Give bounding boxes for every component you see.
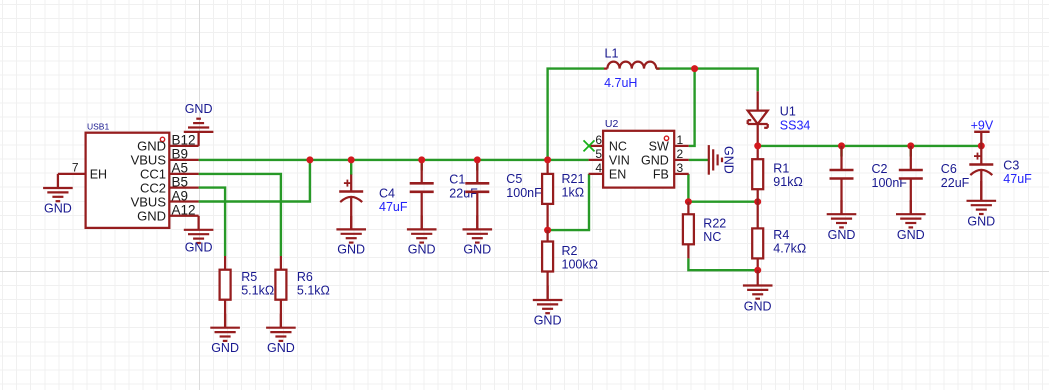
no-connect flag X on U2 pin 6 bbox=[584, 140, 595, 151]
junction VBUS rail at C1 bbox=[418, 156, 425, 163]
svg-text:A9: A9 bbox=[172, 188, 189, 203]
svg-text:4: 4 bbox=[595, 161, 602, 175]
wire net VBUS main rail bbox=[199, 159, 548, 161]
resistor R1 (91kΩ) FB divider top bbox=[752, 146, 803, 202]
pin B9 (VBUS) of USB1 bbox=[169, 159, 198, 161]
svg-text:GND: GND bbox=[267, 341, 295, 355]
connector USB1 (EH receptacle) bbox=[58, 122, 199, 228]
svg-text:GND: GND bbox=[211, 341, 239, 355]
wire net CC2 to R5 bbox=[199, 188, 226, 256]
svg-text:GND: GND bbox=[534, 313, 562, 327]
junction output rail at C2 bbox=[838, 142, 845, 149]
wire net EN: divider tap to U2 pin4 bbox=[548, 174, 589, 230]
junction FB node left bbox=[685, 198, 692, 205]
pin 6 (NC) of U2 bbox=[589, 145, 604, 147]
pin 4 (EN) of U2 bbox=[589, 173, 604, 175]
svg-text:47uF: 47uF bbox=[1003, 172, 1032, 186]
svg-text:2: 2 bbox=[677, 147, 684, 161]
svg-text:NC: NC bbox=[703, 230, 721, 244]
ground GND below C5 bbox=[463, 215, 493, 256]
ground GND below C4 bbox=[336, 216, 366, 257]
junction output rail at C6 bbox=[907, 142, 914, 149]
ground GND at USB pin 7 bbox=[43, 174, 73, 215]
svg-text:100nF: 100nF bbox=[506, 186, 542, 200]
junction VBUS rail at R21/L1 riser bbox=[544, 156, 551, 163]
junction VBUS rail at C4 bbox=[348, 156, 355, 163]
plus sign of C4 bbox=[344, 182, 351, 184]
svg-text:GND: GND bbox=[185, 241, 213, 255]
ground GND below C1 bbox=[407, 215, 437, 256]
svg-text:B12: B12 bbox=[172, 133, 196, 148]
pin A5 (CC1) of USB1 bbox=[169, 173, 198, 175]
pin B12 (GND) of USB1 bbox=[169, 145, 198, 147]
junction EN divider tap node bbox=[544, 227, 551, 234]
op-amp / regulator IC U2 (boost converter) bbox=[589, 118, 689, 187]
polarized capacitor C3 (47uF) output bulk cap bbox=[969, 146, 1032, 201]
schottky diode U1 (SS34) bbox=[748, 91, 811, 146]
svg-text:GND: GND bbox=[722, 146, 736, 174]
svg-text:VBUS: VBUS bbox=[131, 194, 167, 209]
svg-text:GND: GND bbox=[337, 243, 365, 257]
svg-text:CC2: CC2 bbox=[140, 180, 166, 195]
capacitor C1 (22uF) input cap bbox=[410, 161, 478, 230]
svg-text:FB: FB bbox=[653, 168, 669, 182]
pin 5 (VIN) of U2 bbox=[589, 159, 604, 161]
svg-text:VIN: VIN bbox=[609, 154, 630, 168]
wire net FB horizontal bbox=[688, 200, 757, 202]
resistor R6 (5.1kΩ) CC1 pulldown bbox=[275, 256, 329, 328]
svg-text:R6: R6 bbox=[297, 270, 313, 284]
svg-text:5.1kΩ: 5.1kΩ bbox=[297, 284, 330, 298]
ground GND below C2 bbox=[827, 200, 857, 242]
svg-text:3: 3 bbox=[677, 161, 684, 175]
inductor L1 (4.7uH) bbox=[604, 47, 660, 91]
pin 2 (GND) of U2 bbox=[674, 159, 689, 161]
svg-text:GND: GND bbox=[828, 228, 856, 242]
ground GND below R4 bbox=[743, 270, 773, 313]
ground GND below R5 bbox=[210, 314, 240, 355]
wire net VBUS to U2 VIN bbox=[548, 159, 589, 161]
wire U2 GND pin to ground bbox=[689, 159, 708, 161]
plus sign of C3 bbox=[974, 155, 981, 157]
capacitor C5 (100nF) input cap bbox=[465, 161, 542, 230]
svg-text:GND: GND bbox=[137, 139, 166, 154]
wire net SW: L1 right to diode anode bbox=[656, 69, 758, 92]
svg-text:GND: GND bbox=[641, 154, 669, 168]
wire C6 top stem wire bbox=[910, 146, 912, 157]
capacitor C2 (100nF) output cap bbox=[830, 146, 908, 214]
svg-text:SW: SW bbox=[649, 140, 669, 154]
pin 1 indicator dot of U2 bbox=[664, 136, 668, 140]
wire C5 top stem wire bbox=[476, 160, 478, 171]
pin 1 (SW) of U2 bbox=[674, 145, 689, 147]
pin 7 EH (left) bbox=[58, 173, 86, 175]
ground GND below R6 bbox=[266, 314, 296, 355]
capacitor C6 (22uF) output cap bbox=[899, 146, 970, 214]
wire net FB: U2 pin3 down bbox=[687, 174, 689, 202]
svg-text:47uF: 47uF bbox=[379, 200, 408, 214]
svg-text:22uF: 22uF bbox=[941, 176, 970, 190]
svg-text:R1: R1 bbox=[773, 162, 789, 176]
junction diode cathode / R1 node bbox=[754, 142, 761, 149]
svg-text:NC: NC bbox=[609, 140, 627, 154]
svg-text:C1: C1 bbox=[449, 173, 465, 187]
pin A12 (GND) of USB1 bbox=[169, 215, 198, 217]
svg-text:100kΩ: 100kΩ bbox=[562, 257, 598, 271]
svg-text:6: 6 bbox=[595, 133, 602, 147]
svg-text:91kΩ: 91kΩ bbox=[773, 175, 803, 189]
svg-text:C6: C6 bbox=[941, 162, 957, 176]
svg-text:GND: GND bbox=[408, 243, 436, 257]
junction output rail at +9V / C3 bbox=[978, 142, 985, 149]
resistor R5 (5.1kΩ) CC2 pulldown bbox=[220, 256, 275, 328]
wire net SW: U2 pin1 up to L1 node bbox=[689, 69, 695, 146]
pin 3 (FB) of U2 bbox=[674, 173, 689, 175]
svg-text:GND: GND bbox=[44, 201, 72, 215]
resistor R21 (1kΩ) EN divider top bbox=[542, 160, 584, 230]
wire R22 bottom to R4/GND node bbox=[688, 258, 757, 270]
svg-text:4.7uH: 4.7uH bbox=[604, 76, 637, 90]
svg-text:B5: B5 bbox=[172, 174, 189, 189]
ground GND above USB pin B12 (inverted, points up) bbox=[184, 102, 214, 146]
wire net +9V output rail bbox=[758, 145, 982, 147]
svg-text:C2: C2 bbox=[872, 162, 888, 176]
pin 1 indicator dot of USB1 bbox=[160, 137, 164, 141]
svg-text:7: 7 bbox=[72, 160, 79, 174]
ground GND below USB pin A12 bbox=[184, 216, 214, 255]
svg-text:C3: C3 bbox=[1003, 159, 1019, 173]
pin A9 (VBUS) of USB1 bbox=[169, 200, 198, 202]
svg-text:R2: R2 bbox=[562, 244, 578, 258]
svg-text:C5: C5 bbox=[506, 172, 522, 186]
ground GND below R2 bbox=[533, 286, 563, 328]
wire C1 top stem wire bbox=[421, 160, 423, 171]
svg-text:EN: EN bbox=[609, 168, 626, 182]
junction SW node at L1 output bbox=[691, 65, 698, 72]
junction FB node right bbox=[754, 198, 761, 205]
junction VBUS rail at C5 bbox=[474, 156, 481, 163]
svg-text:5.1kΩ: 5.1kΩ bbox=[241, 284, 274, 298]
polarized capacitor C4 (47uF) input bulk cap bbox=[339, 175, 408, 230]
svg-text:1kΩ: 1kΩ bbox=[562, 185, 585, 199]
svg-text:A12: A12 bbox=[172, 203, 196, 218]
ground GND below C6 bbox=[896, 200, 926, 242]
junction R4/R22 ground node bbox=[754, 267, 761, 274]
resistor R4 (4.7kΩ) FB divider bottom bbox=[752, 202, 806, 271]
svg-text:GND: GND bbox=[185, 102, 213, 116]
svg-text:R5: R5 bbox=[241, 270, 257, 284]
svg-text:GND: GND bbox=[967, 214, 995, 228]
svg-text:GND: GND bbox=[137, 209, 166, 224]
wire net VBUS up to L1 left bbox=[548, 69, 604, 160]
svg-text:USB1: USB1 bbox=[87, 122, 109, 132]
svg-text:EH: EH bbox=[90, 168, 107, 182]
svg-text:GND: GND bbox=[463, 243, 491, 257]
svg-text:R21: R21 bbox=[562, 172, 585, 186]
svg-text:+9V: +9V bbox=[971, 118, 994, 132]
svg-text:4.7kΩ: 4.7kΩ bbox=[773, 242, 806, 256]
resistor R2 (100kΩ) EN divider bottom bbox=[542, 230, 598, 300]
svg-text:SS34: SS34 bbox=[780, 119, 811, 133]
junction VBUS rail at A9 riser bbox=[306, 156, 313, 163]
resistor R22 (NC) FB network bbox=[683, 202, 726, 259]
svg-text:R22: R22 bbox=[703, 217, 726, 231]
wire net CC1 to R6 bbox=[199, 174, 281, 256]
svg-text:VBUS: VBUS bbox=[131, 153, 167, 168]
svg-text:U1: U1 bbox=[780, 104, 796, 118]
power flag +9V bbox=[971, 118, 994, 146]
ground GND below C3 bbox=[967, 181, 997, 228]
svg-text:C4: C4 bbox=[379, 187, 395, 201]
svg-text:B9: B9 bbox=[172, 147, 189, 162]
wire net VBUS from pin A9 bbox=[199, 160, 310, 202]
svg-text:U2: U2 bbox=[605, 118, 619, 130]
pin B5 (CC2) of USB1 bbox=[169, 186, 198, 188]
svg-text:22uF: 22uF bbox=[449, 187, 478, 201]
svg-text:GND: GND bbox=[897, 228, 925, 242]
svg-text:5: 5 bbox=[595, 147, 602, 161]
wire C4 top stem wire bbox=[350, 160, 352, 175]
svg-text:1: 1 bbox=[677, 133, 684, 147]
ground GND at U2 pin 2 (rotated 90deg) bbox=[709, 145, 736, 175]
wire C2 top stem wire bbox=[840, 146, 842, 157]
svg-text:R4: R4 bbox=[773, 228, 789, 242]
svg-text:GND: GND bbox=[744, 300, 772, 314]
svg-text:L1: L1 bbox=[605, 47, 619, 61]
